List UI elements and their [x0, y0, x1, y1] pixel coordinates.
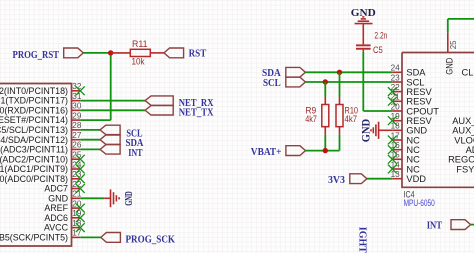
- no-connect cross IC3 pin 32: [76, 86, 85, 95]
- IC4 pin 20 CPOUT: [391, 102, 440, 116]
- svg-text:NC: NC: [406, 145, 420, 155]
- svg-text:25: 25: [449, 40, 458, 49]
- IC4 pin 19 RESV: [391, 112, 433, 126]
- svg-text:RST: RST: [189, 48, 207, 59]
- svg-text:PD2(INT0/PCINT18): PD2(INT0/PCINT18): [0, 86, 68, 96]
- svg-text:28: 28: [72, 121, 82, 130]
- no-connect cross IC3 pin 20: [76, 204, 85, 213]
- net flag SDA: [100, 135, 120, 144]
- svg-text:AREF: AREF: [44, 203, 68, 213]
- IC3 pin 25 PC2(ADC2/PCINT10): [0, 151, 82, 165]
- svg-text:21: 21: [72, 190, 82, 199]
- svg-text:2.2n: 2.2n: [374, 31, 387, 41]
- IC4 pin 23 SCL: [391, 73, 425, 87]
- wire R9 top: [324, 82, 326, 97]
- svg-text:PC2(ADC2/PCINT10): PC2(ADC2/PCINT10): [0, 154, 68, 164]
- no-connect cross IC4 pin 15: [388, 155, 397, 164]
- svg-text:PC3(ADC3/PCINT11): PC3(ADC3/PCINT11): [0, 145, 68, 155]
- wire GND to C5: [362, 24, 364, 45]
- svg-text:13: 13: [391, 170, 401, 179]
- svg-text:INT: INT: [128, 148, 143, 159]
- svg-text:VLOGIC: VLOGIC: [454, 135, 474, 145]
- wire IC3 pin31 to NET_RX: [80, 100, 145, 102]
- IC3 pin 17 PB5(SCK/PCINT5): [0, 229, 82, 243]
- wire IC3 pin17 to PROG_SCK: [80, 236, 101, 238]
- wire C5 to CPOUT: [362, 52, 364, 111]
- svg-text:PC0(ADC0/PCINT8): PC0(ADC0/PCINT8): [0, 174, 68, 184]
- svg-text:GND: GND: [406, 126, 427, 136]
- wire SCL to IC4 pin 23: [305, 81, 392, 83]
- IC3 pin 30 PD0(RXD/PCINT16): [0, 102, 82, 116]
- svg-text:AVCC: AVCC: [44, 223, 69, 233]
- net flag PROG_RST: [64, 48, 84, 58]
- junction SDA/R10: [337, 70, 342, 75]
- no-connect cross IC4 pin 17: [388, 136, 397, 145]
- no-connect cross IC3 pin 18: [76, 223, 85, 232]
- svg-text:C5: C5: [373, 45, 383, 55]
- no-connect cross IC3 pin 22: [76, 184, 85, 193]
- wire SDA to IC4 pin 24: [305, 71, 392, 73]
- svg-text:26: 26: [72, 141, 82, 150]
- net flag PROG_SCK: [101, 233, 121, 243]
- IC3 pin 31 PD1(TXD/PCINT17): [0, 92, 82, 106]
- svg-text:PROG_RST: PROG_RST: [13, 50, 60, 61]
- svg-text:INT: INT: [427, 220, 443, 231]
- ground symbol above C5: [355, 17, 373, 24]
- wire to IC4 pin 20: [363, 110, 392, 112]
- svg-text:PD1(TXD/PCINT17): PD1(TXD/PCINT17): [0, 96, 68, 106]
- wire IC3 pin21 to GND: [80, 197, 104, 199]
- IC3 pin 18 AVCC: [44, 219, 82, 233]
- svg-text:FSYNC: FSYNC: [456, 164, 474, 174]
- net flag 3V3: [350, 174, 367, 184]
- svg-text:32: 32: [72, 82, 82, 91]
- svg-text:20: 20: [72, 199, 82, 208]
- IC3 pin 20 AREF: [44, 199, 82, 213]
- IC3 pin 24 PC1(ADC1/PCINT9): [0, 160, 82, 174]
- svg-text:RESV: RESV: [406, 116, 432, 126]
- net flag VBAT+: [286, 146, 306, 156]
- net flag RST: [164, 48, 184, 58]
- svg-text:18: 18: [391, 122, 401, 131]
- svg-text:PD0(RXD/PCINT16): PD0(RXD/PCINT16): [0, 105, 68, 115]
- svg-text:NET_TX: NET_TX: [179, 108, 214, 119]
- no-connect cross IC3 pin 23: [76, 174, 85, 183]
- svg-text:PC5(ADC5/SCL/PCINT13): PC5(ADC5/SCL/PCINT13): [0, 125, 68, 135]
- svg-text:GND: GND: [444, 57, 454, 74]
- net flag INT: [100, 145, 120, 154]
- svg-text:22: 22: [72, 180, 82, 189]
- resistor R10: [336, 97, 343, 135]
- svg-text:IGHT: IGHT: [357, 227, 368, 253]
- net flag SCL: [286, 77, 306, 87]
- svg-text:PB5(SCK/PCINT5): PB5(SCK/PCINT5): [0, 233, 68, 243]
- svg-text:20: 20: [391, 102, 401, 111]
- svg-text:GND: GND: [361, 119, 373, 143]
- wire to right edge: [448, 18, 474, 20]
- svg-text:PC1(ADC1/PCINT9): PC1(ADC1/PCINT9): [0, 164, 68, 174]
- svg-text:18: 18: [72, 219, 82, 228]
- IC3 pin 26 PC3(ADC3/PCINT11): [0, 141, 82, 155]
- wire VBAT+ to pullups: [306, 150, 340, 152]
- svg-text:MPU-6050: MPU-6050: [404, 198, 435, 208]
- junction PROG_RST/R11: [108, 50, 113, 55]
- IC4 pin 16 NC: [391, 141, 421, 155]
- svg-text:PROG_SCK: PROG_SCK: [126, 234, 176, 245]
- svg-text:SCL: SCL: [406, 77, 424, 87]
- svg-text:24: 24: [391, 64, 401, 73]
- svg-text:AUX_DA: AUX_DA: [452, 116, 474, 126]
- IC4 pin 13 VDD: [391, 170, 427, 184]
- ground symbol at IC3 pin 21: [104, 189, 119, 207]
- C5 bottom stub: [362, 50, 364, 52]
- wire PROG_RST to junction: [83, 52, 110, 54]
- IC3 pin 27 PC4(ADC4/SDA/PCINT12): [0, 131, 82, 145]
- svg-text:31: 31: [72, 92, 82, 101]
- svg-text:AD0: AD0: [466, 145, 474, 155]
- svg-text:4k7: 4k7: [345, 114, 358, 124]
- net flag SCL: [100, 125, 120, 134]
- wire INT to right edge: [471, 224, 474, 226]
- wire IC3 pin27 to SDA: [80, 139, 100, 141]
- svg-text:CLKIN: CLKIN: [462, 68, 474, 78]
- svg-text:AUX_CL: AUX_CL: [452, 126, 474, 136]
- wire IC4 pin 25 up: [447, 19, 449, 33]
- IC3 pin 19 ADC6: [44, 209, 82, 223]
- svg-text:10k: 10k: [132, 56, 145, 66]
- IC4 pin 14 NC: [391, 160, 421, 174]
- svg-text:4k7: 4k7: [305, 114, 317, 124]
- IC4 pin 25 GND (top): [444, 33, 458, 75]
- IC4 pin 24 SDA: [391, 64, 427, 78]
- svg-text:GND: GND: [124, 191, 135, 206]
- IC4 pin 18 GND: [391, 122, 428, 136]
- svg-text:SDA: SDA: [406, 68, 426, 78]
- svg-text:GND: GND: [48, 193, 68, 203]
- IC4 pin 22 RESV: [391, 83, 433, 97]
- wire IC3 pin26 to INT: [80, 148, 100, 150]
- svg-text:25: 25: [72, 151, 82, 160]
- svg-text:ADC6: ADC6: [44, 213, 68, 223]
- IC3 pin 28 PC5(ADC5/SCL/PCINT13): [0, 121, 82, 135]
- no-connect cross IC4 pin 21: [388, 97, 397, 106]
- svg-text:23: 23: [391, 73, 401, 82]
- no-connect cross IC3 pin 25: [76, 155, 85, 164]
- svg-text:R11: R11: [132, 39, 148, 49]
- no-connect cross IC3 pin 24: [76, 165, 85, 174]
- svg-text:17: 17: [72, 229, 82, 238]
- svg-text:REGOUT: REGOUT: [448, 155, 474, 165]
- IC3 pin 32 PD2(INT0/PCINT18): [0, 82, 82, 96]
- no-connect cross IC4 pin 19: [388, 116, 397, 125]
- wire 3V3 to IC4 pin 13: [367, 178, 392, 180]
- wire IC3 pin28 to SCL: [80, 129, 100, 131]
- svg-text:24: 24: [72, 160, 82, 169]
- no-connect cross IC4 pin 14: [388, 165, 397, 174]
- no-connect cross IC4 pin 22: [388, 87, 397, 96]
- svg-text:PC6(RESET#/PCINT14): PC6(RESET#/PCINT14): [0, 115, 68, 125]
- net flag INT: [451, 220, 471, 230]
- svg-text:30: 30: [72, 102, 82, 111]
- wire R10 top: [339, 72, 341, 96]
- svg-text:NC: NC: [406, 164, 420, 174]
- svg-text:3V3: 3V3: [328, 175, 345, 186]
- svg-text:27: 27: [72, 131, 82, 140]
- svg-text:VDD: VDD: [406, 174, 426, 184]
- svg-text:VBAT+: VBAT+: [251, 147, 282, 158]
- IC4 pin 21 RESV: [391, 93, 433, 107]
- IC3 pin 21 GND: [48, 190, 82, 204]
- IC IC3 ATmega body (extends off-canvas left): [0, 84, 72, 247]
- svg-text:NC: NC: [406, 155, 420, 165]
- resistor R9: [322, 97, 329, 135]
- svg-text:ADC7: ADC7: [44, 184, 68, 194]
- svg-text:29: 29: [72, 111, 82, 120]
- IC4 pin 17 NC: [391, 131, 421, 145]
- net flag SDA: [286, 67, 306, 77]
- svg-text:CPOUT: CPOUT: [406, 106, 439, 116]
- resistor R11: [111, 49, 164, 56]
- wire R10 bottom: [339, 135, 341, 151]
- wire IC3 pin30 to NET_TX: [80, 109, 145, 111]
- svg-text:RESV: RESV: [406, 97, 432, 107]
- junction VBAT+/R9: [323, 148, 328, 153]
- net flag NET_TX: [145, 106, 173, 115]
- IC3 pin 23 PC0(ADC0/PCINT8): [0, 170, 82, 184]
- IC IC4 MPU-6050 body: [402, 53, 474, 188]
- no-connect cross IC3 pin 19: [76, 213, 85, 222]
- wire to IC3 pin 29: [80, 119, 110, 121]
- IC3 pin 29 PC6(RESET#/PCINT14): [0, 111, 82, 125]
- svg-text:RESV: RESV: [406, 87, 432, 97]
- ground symbol at IC4 pin 18: [371, 122, 392, 139]
- no-connect cross IC4 pin 16: [388, 145, 397, 154]
- svg-text:SCL: SCL: [263, 78, 281, 89]
- wire R9 bottom: [324, 135, 326, 151]
- net flag NET_RX: [145, 96, 173, 105]
- junction SCL/R9: [323, 79, 328, 84]
- svg-text:PC4(ADC4/SDA/PCINT12): PC4(ADC4/SDA/PCINT12): [0, 135, 68, 145]
- wire junction down to pin 29: [110, 53, 112, 120]
- svg-text:NC: NC: [406, 135, 420, 145]
- IC4 pin 15 NC: [391, 151, 421, 165]
- IC3 pin 22 ADC7: [44, 180, 82, 194]
- capacitor C5: [356, 44, 371, 49]
